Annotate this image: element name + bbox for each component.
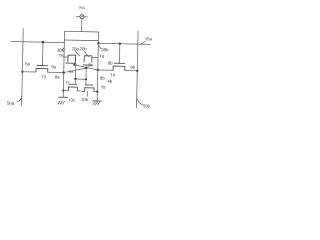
svg-text:5a: 5a — [69, 69, 74, 74]
wire T4 source — [125, 70, 137, 72]
ground right — [93, 100, 101, 102]
wire T8 drain stub — [82, 90, 85, 92]
leader 15a — [141, 41, 145, 44]
svg-text:6a: 6a — [25, 61, 30, 66]
svg-text:10b: 10b — [81, 97, 89, 102]
wire left bit line — [22, 29, 24, 106]
wire T5 gate stub — [73, 63, 75, 64]
leader 50b — [137, 98, 143, 105]
wire Vcc lead — [81, 19, 83, 32]
transistor T5 — [68, 55, 76, 62]
wire right node column — [97, 41, 98, 101]
wire T5 drain — [64, 56, 68, 58]
svg-text:T4: T4 — [110, 72, 116, 77]
leader 30a — [62, 48, 64, 50]
svg-text:70a: 70a — [72, 46, 80, 51]
leader 20b — [84, 51, 89, 56]
wire supply rail right — [98, 43, 150, 44]
wire T4 drain — [98, 69, 113, 71]
node dot T4 gate — [119, 43, 121, 45]
node dot left bitline — [21, 71, 23, 73]
svg-text:50a: 50a — [7, 101, 15, 106]
wire cross couple B — [74, 65, 98, 70]
svg-text:Vcc: Vcc — [78, 5, 85, 10]
leader 50a — [17, 96, 22, 101]
wire T6 source lead — [85, 65, 87, 85]
svg-text:8a: 8a — [55, 74, 60, 79]
node dot right column — [97, 69, 99, 71]
svg-text:T8: T8 — [101, 85, 107, 90]
svg-text:10c: 10c — [68, 97, 76, 102]
wire T2 source — [22, 71, 36, 73]
svg-text:T6: T6 — [99, 54, 105, 59]
svg-text:30b: 30b — [101, 47, 109, 52]
svg-text:T2: T2 — [41, 74, 47, 79]
wire T8 source — [94, 91, 97, 93]
svg-text:8b: 8b — [100, 75, 105, 80]
node dot T7 source — [62, 89, 64, 91]
wire T5 source lead — [74, 62, 77, 84]
leader 70a — [75, 51, 79, 55]
transistor T7 — [69, 83, 77, 85]
load box 70 — [64, 31, 98, 40]
wire T6 drain — [92, 57, 98, 59]
wire supply rail left — [11, 41, 64, 42]
wire T7 source — [63, 90, 68, 92]
node dot couple A — [85, 67, 87, 69]
node dot T8 source — [96, 91, 98, 93]
wire T8 leg stub — [86, 91, 88, 96]
wire right bit line — [137, 31, 139, 108]
svg-text:9b: 9b — [130, 65, 135, 70]
wire cross couple A — [64, 68, 87, 73]
node dot T2 gate — [42, 41, 44, 43]
svg-text:20b: 20b — [79, 46, 87, 51]
wire source link — [75, 78, 86, 80]
transistor T4 — [118, 44, 120, 64]
transistor T2 — [41, 42, 43, 65]
wire left node column — [63, 40, 64, 97]
power supply terminal — [76, 16, 79, 18]
node dot left column — [63, 71, 65, 73]
svg-text:4b: 4b — [107, 79, 112, 84]
node dot source right — [85, 78, 87, 80]
svg-text:15a: 15a — [145, 36, 153, 41]
svg-text:50b: 50b — [143, 103, 151, 108]
wire T7 drain stub — [77, 90, 80, 92]
node dot source left — [74, 78, 76, 80]
node dot box right — [97, 42, 99, 44]
ground left — [59, 96, 68, 98]
svg-text:T5: T5 — [59, 53, 65, 58]
leader 30b — [99, 46, 102, 49]
svg-text:6b: 6b — [108, 60, 113, 65]
svg-text:9a: 9a — [51, 64, 56, 69]
node dot right bitline — [136, 70, 138, 72]
wire T2 drain — [48, 71, 64, 73]
transistor T6 — [84, 56, 92, 62]
transistor T8 — [85, 84, 93, 86]
node dot couple B — [73, 64, 75, 66]
